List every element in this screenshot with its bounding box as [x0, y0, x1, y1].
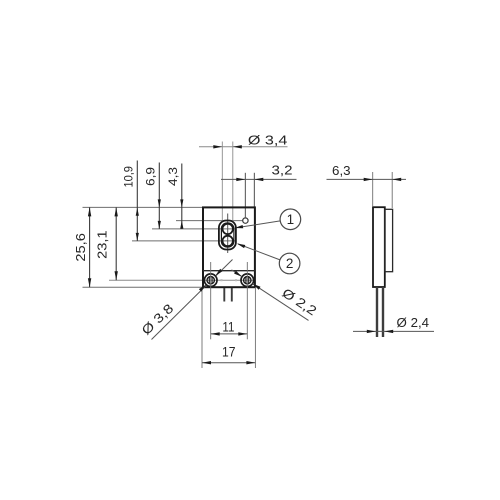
mounting hole right inner [244, 277, 251, 284]
svg-text:6,9: 6,9 [144, 167, 158, 186]
mounting hole left slot detail [208, 277, 210, 283]
wire: body-top extension line [83, 206, 204, 208]
svg-text:3,2: 3,2 [272, 162, 293, 177]
dimension 10,9 (top to lower circle) [122, 161, 139, 241]
svg-text:23,1: 23,1 [96, 230, 110, 259]
wire lead front-left [223, 288, 225, 302]
pin hole circle upper [223, 224, 233, 234]
obround slot outer outline [219, 221, 236, 250]
callout balloon 2 [237, 244, 300, 274]
rivet mark left [221, 279, 223, 281]
small reference circle [243, 218, 248, 223]
wire lead side-right [382, 287, 384, 337]
svg-text:11: 11 [222, 319, 234, 334]
wire: body inner line above mounting strip [203, 270, 255, 272]
dimension 17 (body width) [202, 344, 255, 364]
dimension 11 (hole spacing) [211, 319, 248, 335]
callout balloon 1 [235, 209, 301, 230]
wire lead side-left [376, 287, 378, 337]
wire: upper-circle centre extension (6,9) [152, 228, 237, 230]
dimension 3,2 (small circle to body edge) [221, 162, 297, 217]
side-view back plate [385, 209, 393, 271]
svg-text:1: 1 [287, 212, 295, 227]
dimension 25,6 (overall height) [74, 207, 92, 287]
dimension Ø 3,4 (pin hole diameter) [199, 132, 288, 220]
mounting hole right outer [241, 274, 254, 287]
rivet mark right [235, 279, 237, 281]
svg-text:2: 2 [286, 256, 294, 271]
component body (side view) [373, 207, 385, 287]
mounting hole left outer [204, 274, 217, 287]
svg-text:6,3: 6,3 [332, 164, 351, 178]
svg-text:17: 17 [222, 344, 236, 359]
wire: extension below body left edge [201, 287, 203, 368]
dimension Ø 3,8 (left mounting hole) [138, 260, 232, 340]
svg-text:Ø 2,4: Ø 2,4 [397, 315, 430, 330]
svg-text:25,6: 25,6 [74, 233, 88, 262]
svg-text:4,3: 4,3 [166, 167, 180, 186]
pin hole circle lower [223, 236, 233, 246]
mounting hole right slot detail [245, 277, 247, 283]
dimension 4,3 (top to small circle) [166, 164, 183, 230]
wire: extension below body right edge [254, 287, 256, 368]
wire: small-circle centre extension (4,3) [176, 220, 243, 222]
dimension 23,1 (top to hole centre) [96, 207, 118, 280]
dimension 6,3 (side thickness) [327, 164, 407, 208]
svg-text:10,9: 10,9 [122, 166, 136, 188]
dimension 6,9 (top to upper circle) [144, 163, 161, 229]
dimension Ø 2,2 (right mounting hole inner) [232, 270, 320, 321]
component body (front view) [203, 207, 255, 287]
wire: vertical centre line of pin circles [227, 214, 229, 254]
wire: body-bottom extension line [83, 286, 204, 288]
wire: extension below left hole [210, 262, 212, 339]
dimension Ø 2,4 (wire diameter) [353, 315, 434, 333]
wire: mounting-hole centre line [109, 279, 255, 281]
mounting hole left inner [207, 277, 214, 284]
wire lead front-right [231, 288, 233, 302]
svg-text:Ø 3,4: Ø 3,4 [248, 132, 288, 147]
wire: lower-circle centre extension (10,9) [132, 240, 237, 242]
wire: extension below right hole [246, 262, 248, 339]
obround slot inner outline [221, 223, 234, 247]
